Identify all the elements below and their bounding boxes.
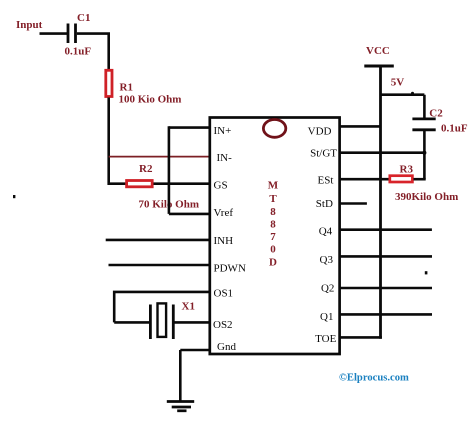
IC part number MT8870D (vertical) bbox=[268, 180, 279, 269]
svg-text:T: T bbox=[269, 193, 277, 205]
resistor R3 bbox=[390, 164, 458, 203]
wire C1 to R1 bbox=[77, 32, 109, 70]
svg-text:VDD: VDD bbox=[308, 126, 332, 138]
wire IN+ to Vref vertical bbox=[168, 126, 171, 214]
pin label Q4 bbox=[319, 226, 333, 238]
svg-text:Q3: Q3 bbox=[320, 254, 334, 266]
wire INH pin bbox=[106, 239, 210, 242]
stray mark left bbox=[13, 195, 15, 198]
svg-text:X1: X1 bbox=[182, 301, 195, 313]
svg-text:R1: R1 bbox=[120, 82, 133, 94]
svg-text:Vref: Vref bbox=[214, 207, 234, 219]
pin label OS2 bbox=[213, 319, 233, 331]
svg-text:Input: Input bbox=[16, 19, 43, 31]
svg-text:5V: 5V bbox=[391, 77, 405, 89]
svg-text:390Kilo Ohm: 390Kilo Ohm bbox=[395, 191, 458, 203]
svg-text:C1: C1 bbox=[77, 12, 90, 24]
svg-text:R3: R3 bbox=[400, 164, 414, 176]
svg-text:TOE: TOE bbox=[315, 333, 336, 345]
svg-text:OS1: OS1 bbox=[214, 287, 234, 299]
pin label St/GT bbox=[310, 148, 337, 160]
node 5V label bbox=[391, 77, 405, 89]
IC U1 MT8870D body bbox=[210, 118, 340, 355]
pin label StD bbox=[316, 198, 333, 210]
wire Vref pin bbox=[169, 213, 210, 216]
watermark Elprocus bbox=[339, 373, 409, 384]
svg-text:C2: C2 bbox=[429, 108, 443, 120]
resistor R1 bbox=[106, 70, 182, 105]
svg-text:INH: INH bbox=[214, 235, 234, 247]
wire Q1 pin bbox=[339, 313, 432, 316]
wire R1 to R2/GS node bbox=[107, 98, 110, 185]
svg-text:8: 8 bbox=[270, 219, 276, 231]
svg-text:D: D bbox=[269, 257, 277, 269]
resistor R2 bbox=[127, 163, 199, 211]
svg-text:Gnd: Gnd bbox=[217, 341, 236, 353]
capacitor C1 bbox=[65, 12, 92, 58]
capacitor C2 bbox=[412, 108, 467, 135]
wire C2 to ESt/R3 bbox=[423, 130, 426, 179]
pin label Vref bbox=[214, 207, 234, 219]
svg-text:OS2: OS2 bbox=[213, 319, 233, 331]
svg-text:0.1uF: 0.1uF bbox=[65, 46, 92, 58]
svg-text:100 Kio Ohm: 100 Kio Ohm bbox=[119, 94, 182, 106]
wire input to C1 bbox=[40, 32, 68, 35]
svg-text:St/GT: St/GT bbox=[310, 148, 337, 160]
wire OS2 pin bbox=[173, 321, 210, 324]
crystal X1 bbox=[150, 301, 195, 340]
wire PDWN pin bbox=[109, 264, 211, 267]
junction dot bbox=[411, 92, 414, 95]
pin label Q3 bbox=[320, 254, 334, 266]
svg-text:©Elprocus.com: ©Elprocus.com bbox=[339, 373, 409, 384]
pin label Q2 bbox=[321, 282, 334, 294]
svg-text:Q4: Q4 bbox=[319, 226, 333, 238]
wire R2 to GS pin bbox=[154, 182, 211, 185]
pin label ESt bbox=[317, 174, 333, 186]
wire VCC vertical bus bbox=[379, 66, 382, 339]
pin label GS bbox=[214, 179, 228, 191]
wire Q3 pin bbox=[339, 255, 432, 258]
wire TOE pin bbox=[339, 336, 382, 339]
wire IN+ pin bbox=[169, 126, 210, 129]
wire R3 to C2 branch bbox=[414, 178, 426, 181]
wire St/GT pin bbox=[339, 151, 424, 154]
wire Gnd pin bbox=[180, 350, 210, 402]
wire ESt pin bbox=[339, 178, 389, 181]
pin label IN+ bbox=[214, 125, 232, 137]
wire IN- (dark red) bbox=[109, 156, 210, 158]
svg-text:StD: StD bbox=[316, 198, 333, 210]
pin label VDD bbox=[308, 126, 332, 138]
pin label Q1 bbox=[320, 311, 333, 323]
wire Q4 pin bbox=[339, 228, 432, 231]
svg-text:Q1: Q1 bbox=[320, 311, 333, 323]
svg-text:IN+: IN+ bbox=[214, 125, 232, 137]
svg-text:7: 7 bbox=[270, 231, 276, 243]
wire StD stub bbox=[339, 202, 367, 205]
pin label TOE bbox=[315, 333, 336, 345]
svg-text:8: 8 bbox=[270, 206, 276, 218]
svg-text:0.1uF: 0.1uF bbox=[441, 123, 468, 135]
svg-text:IN-: IN- bbox=[217, 152, 233, 164]
wire VDD pin bbox=[339, 125, 381, 128]
svg-text:Q2: Q2 bbox=[321, 282, 334, 294]
svg-text:GS: GS bbox=[214, 179, 228, 191]
ground bbox=[167, 402, 194, 411]
pin label OS1 bbox=[214, 287, 234, 299]
wire Q2 pin bbox=[339, 287, 432, 290]
pin label Gnd bbox=[217, 341, 236, 353]
pin label IN- bbox=[217, 152, 233, 164]
svg-text:0: 0 bbox=[270, 244, 276, 256]
svg-text:PDWN: PDWN bbox=[214, 263, 246, 275]
wire node to R2 bbox=[108, 182, 127, 185]
svg-text:M: M bbox=[268, 180, 279, 192]
pin label INH bbox=[214, 235, 234, 247]
junction dot St/GT C2 bbox=[422, 151, 426, 155]
svg-text:R2: R2 bbox=[139, 163, 153, 175]
stray mark right bbox=[425, 271, 428, 274]
svg-text:ESt: ESt bbox=[317, 174, 333, 186]
wire OS1 pin bbox=[114, 291, 210, 323]
IC notch oval bbox=[263, 119, 285, 137]
power VCC bbox=[364, 45, 394, 66]
svg-text:VCC: VCC bbox=[366, 45, 390, 57]
node Input label bbox=[16, 19, 43, 31]
wire VCC branch to C2 bbox=[381, 95, 425, 118]
pin label PDWN bbox=[214, 263, 246, 275]
